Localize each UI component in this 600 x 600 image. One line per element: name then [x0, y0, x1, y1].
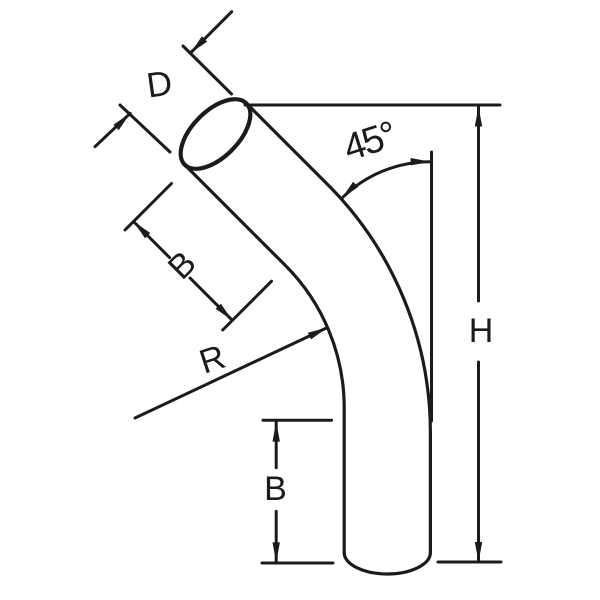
svg-text:B: B [264, 470, 287, 508]
svg-text:45°: 45° [339, 114, 401, 170]
svg-text:B: B [161, 244, 204, 287]
svg-text:H: H [469, 312, 494, 350]
svg-text:D: D [144, 63, 174, 105]
svg-text:R: R [195, 338, 230, 382]
